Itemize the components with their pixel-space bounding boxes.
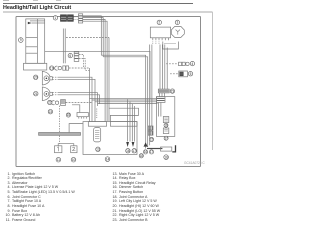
svg-text:19: 19: [50, 66, 54, 70]
svg-text:9: 9: [20, 38, 22, 42]
svg-text:3: 3: [177, 21, 179, 25]
svg-text:14: 14: [106, 157, 110, 161]
svg-text:4: 4: [192, 62, 194, 66]
svg-text:18: 18: [164, 155, 168, 159]
svg-text:13: 13: [96, 148, 100, 152]
svg-text:17: 17: [164, 136, 168, 140]
svg-text:16: 16: [144, 150, 148, 154]
svg-text:5: 5: [190, 72, 192, 76]
svg-text:16: 16: [126, 149, 130, 153]
svg-text:11: 11: [57, 158, 61, 162]
svg-text:21: 21: [34, 92, 38, 96]
svg-text:2: 2: [158, 21, 160, 25]
svg-text:22: 22: [48, 101, 52, 105]
svg-text:20: 20: [34, 76, 38, 80]
svg-text:18: 18: [140, 154, 144, 158]
svg-text:17: 17: [150, 150, 154, 154]
svg-text:10: 10: [72, 158, 76, 162]
svg-text:15: 15: [150, 138, 154, 142]
svg-text:1: 1: [55, 16, 57, 20]
svg-text:16: 16: [164, 124, 168, 128]
svg-text:23: 23: [171, 89, 175, 93]
svg-text:15: 15: [67, 113, 71, 117]
svg-text:23: 23: [49, 110, 53, 114]
svg-text:17: 17: [132, 149, 136, 153]
svg-text:6: 6: [69, 54, 71, 58]
